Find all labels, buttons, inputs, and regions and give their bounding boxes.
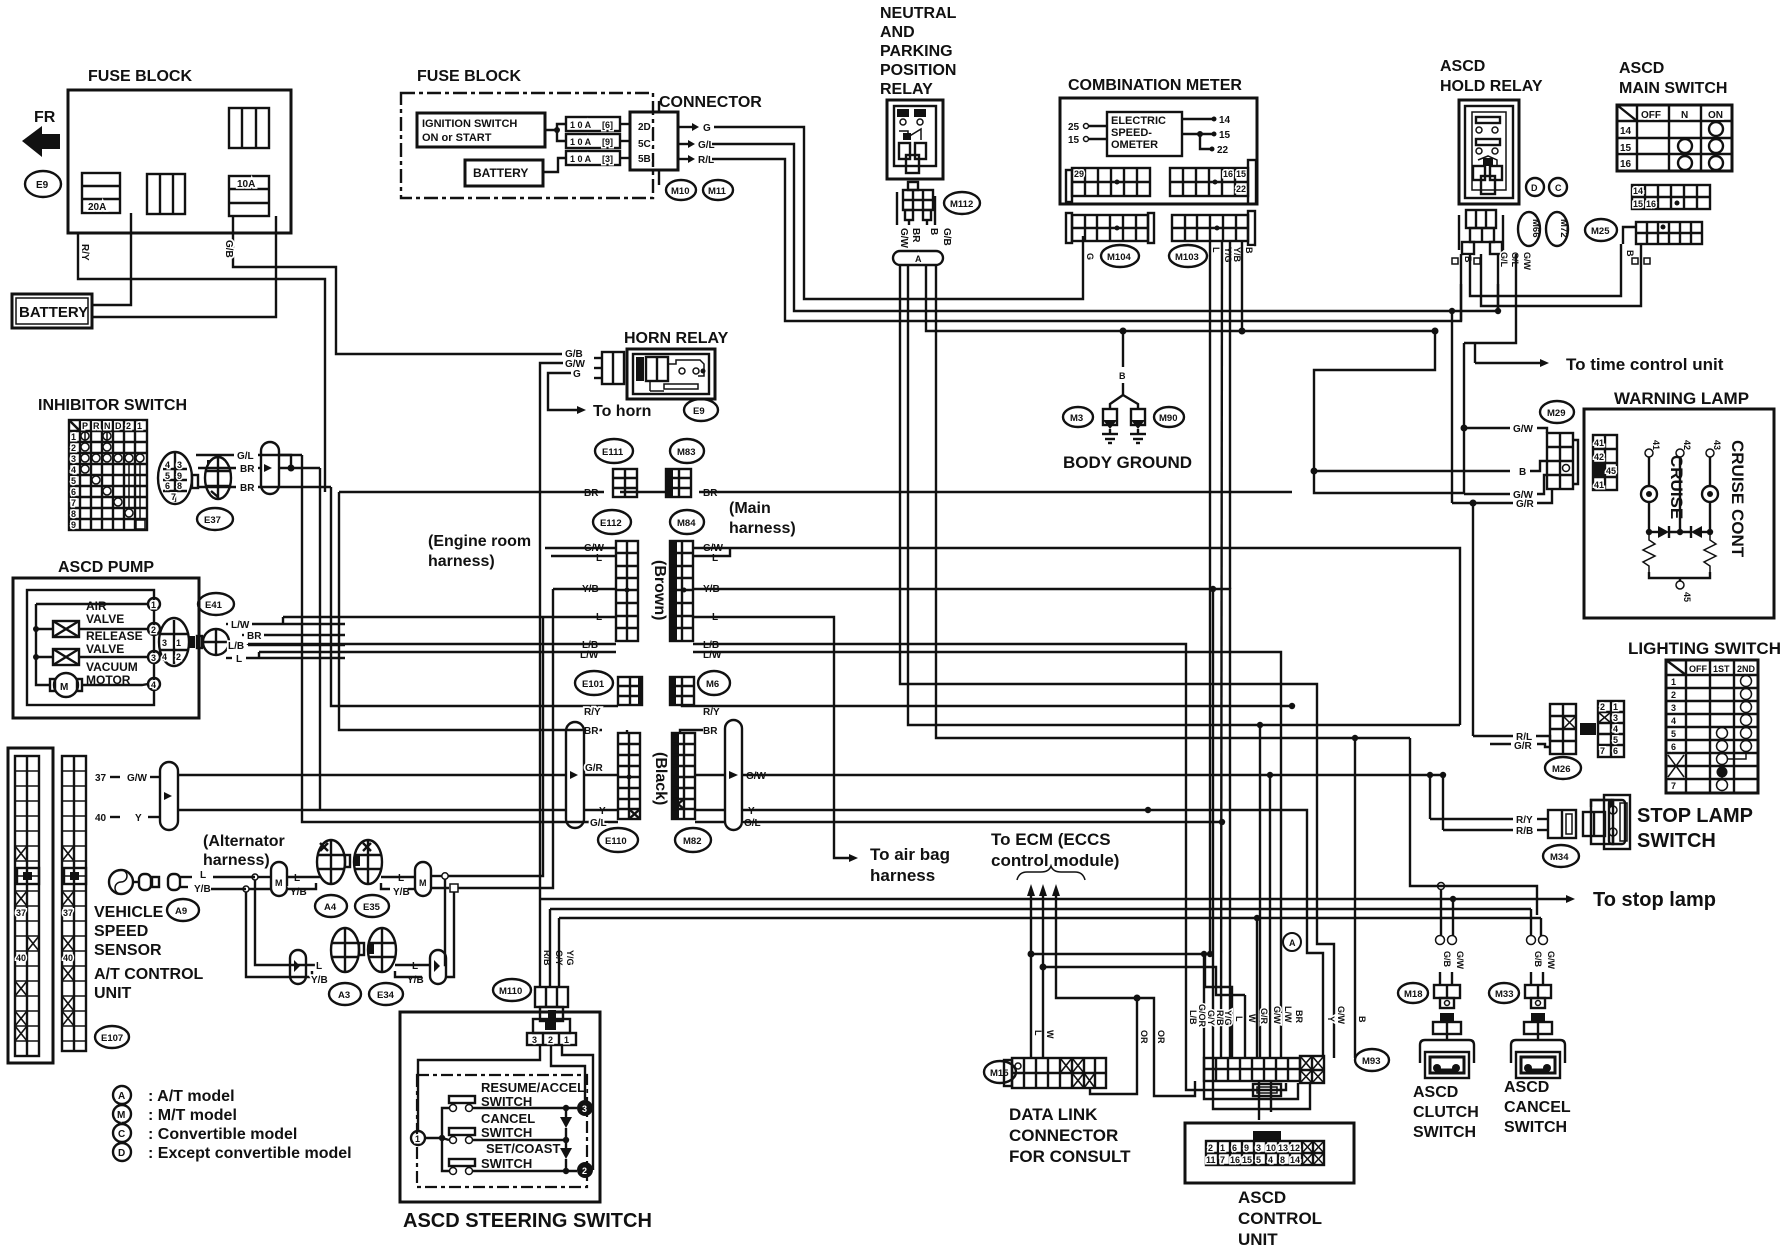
svg-text:45: 45 (1682, 592, 1692, 602)
M110 connector block (535, 987, 568, 1021)
svg-text:15: 15 (1242, 1155, 1252, 1165)
ECM wire W (1039, 884, 1047, 896)
svg-text:M: M (60, 682, 68, 693)
svg-text:A9: A9 (175, 906, 187, 917)
svg-text:20A: 20A (88, 202, 106, 213)
svg-text:E41: E41 (205, 600, 223, 611)
main switch connector B (1623, 222, 1702, 244)
diode row (1646, 529, 1652, 535)
svg-text:42: 42 (1594, 452, 1604, 462)
wire G/B fuse to horn relay (233, 216, 562, 354)
svg-text:W: W (1045, 1030, 1055, 1039)
svg-text:HOLD RELAY: HOLD RELAY (1440, 78, 1543, 95)
svg-text:8: 8 (71, 509, 76, 519)
svg-text:5: 5 (1671, 729, 1676, 739)
ASCD main switch (1617, 60, 1732, 171)
connector E107 (95, 1026, 129, 1048)
svg-text:2: 2 (548, 1035, 553, 1045)
svg-text:M110: M110 (499, 986, 522, 997)
svg-text:(Brown): (Brown) (651, 560, 668, 620)
svg-text:14: 14 (1290, 1155, 1300, 1165)
svg-text:M11: M11 (708, 186, 727, 197)
svg-text:N: N (1681, 110, 1688, 121)
svg-text:41: 41 (1651, 440, 1661, 450)
svg-text:control module): control module) (991, 851, 1119, 870)
internal connector grid (1593, 435, 1617, 490)
A/T pill connector (160, 762, 178, 830)
resistors (1643, 532, 1655, 572)
svg-text:SWITCH: SWITCH (1637, 830, 1716, 852)
wire L/W trunk (259, 651, 616, 653)
svg-text:E112: E112 (600, 518, 622, 529)
svg-text:D: D (118, 1148, 125, 1159)
ASCD control unit box (1185, 1123, 1354, 1183)
svg-text:PARKING: PARKING (880, 43, 953, 60)
M26 right connector with pins (1585, 701, 1624, 757)
wire R/L to hold relay (712, 159, 1461, 321)
svg-text:L/W: L/W (1283, 1006, 1293, 1023)
svg-text:G/W: G/W (1455, 951, 1465, 970)
svg-text:7: 7 (1671, 781, 1676, 791)
svg-text:L: L (412, 961, 418, 972)
svg-text:M82: M82 (683, 836, 701, 847)
svg-text:B: B (1463, 256, 1473, 263)
svg-text:G/L: G/L (590, 818, 607, 829)
svg-text:R/Y: R/Y (79, 244, 90, 261)
svg-text:2: 2 (1671, 690, 1676, 700)
svg-text:G/W: G/W (127, 773, 148, 784)
fuse F3 (middle 3-cell) (147, 174, 185, 214)
M29 connector grid (1547, 433, 1578, 489)
svg-text:3: 3 (1256, 1143, 1261, 1153)
svg-text:CONTROL: CONTROL (1238, 1209, 1322, 1228)
svg-text:7: 7 (71, 498, 76, 508)
svg-text:C: C (1555, 183, 1562, 193)
svg-text:42: 42 (1682, 440, 1692, 450)
svg-text:BR: BR (910, 228, 921, 243)
connector E9 (25, 171, 61, 197)
svg-text:G/R: G/R (1259, 1008, 1269, 1025)
svg-text:Y: Y (748, 806, 755, 817)
M83 grid connector (666, 469, 691, 497)
svg-text:1: 1 (415, 1134, 420, 1144)
svg-text:CONNECTOR: CONNECTOR (1009, 1126, 1118, 1145)
inhibitor round connector 2 (205, 457, 231, 499)
svg-text:M112: M112 (950, 199, 973, 210)
svg-text:A3: A3 (338, 990, 350, 1001)
svg-text:R/Y: R/Y (703, 707, 720, 718)
svg-text:40: 40 (16, 953, 26, 963)
connector M82 (675, 828, 711, 852)
svg-text:UNIT: UNIT (1238, 1230, 1278, 1248)
connector E41 (198, 593, 234, 615)
svg-text:G/L: G/L (237, 451, 254, 462)
connector E111 (595, 439, 633, 463)
svg-text:: Except convertible model: : Except convertible model (148, 1145, 352, 1162)
svg-text:M66: M66 (1530, 219, 1541, 237)
svg-text:CANCEL: CANCEL (481, 1111, 535, 1126)
svg-text:Y/G: Y/G (1223, 247, 1233, 263)
M82 tall connector (672, 733, 695, 819)
svg-text:: A/T model: : A/T model (148, 1088, 235, 1105)
connector M112 oval (944, 192, 980, 214)
svg-text:10: 10 (1266, 1143, 1276, 1153)
battery (12, 294, 92, 328)
svg-text:(Engine room: (Engine room (428, 533, 531, 550)
svg-text:M34: M34 (1550, 852, 1569, 863)
fuse block 2 (dash-dot) (401, 68, 653, 198)
svg-text:1 0 A: 1 0 A (570, 154, 592, 164)
vehicle speed sensor (109, 870, 192, 894)
svg-text:OFF: OFF (1641, 110, 1661, 121)
svg-text:COMBINATION METER: COMBINATION METER (1068, 77, 1242, 94)
long feeder verticals from engine-room trunk (302, 455, 618, 822)
svg-text:15: 15 (1620, 143, 1632, 154)
svg-text:Y/G: Y/G (565, 950, 575, 966)
VSS wires to alternator harness (213, 876, 255, 878)
svg-text:FUSE BLOCK: FUSE BLOCK (88, 68, 192, 85)
svg-text:G/L: G/L (744, 818, 761, 829)
svg-text:4: 4 (1613, 724, 1618, 734)
inhibitor pill connector (261, 442, 279, 494)
svg-text:B: B (1119, 371, 1126, 381)
svg-text:1: 1 (151, 600, 156, 610)
E110 tall connector (618, 733, 640, 819)
svg-text:37: 37 (95, 773, 107, 784)
svg-text:FUSE BLOCK: FUSE BLOCK (417, 68, 521, 85)
svg-text:BR: BR (240, 483, 255, 494)
svg-text:Y/B: Y/B (311, 975, 328, 986)
connector M93 (1355, 1049, 1389, 1071)
horn relay (624, 330, 729, 399)
svg-text:W: W (1247, 1014, 1257, 1023)
svg-text:1: 1 (1671, 677, 1676, 687)
svg-text:Y/B: Y/B (393, 887, 410, 898)
svg-text:G/W: G/W (1522, 252, 1532, 271)
svg-text:E35: E35 (363, 902, 381, 913)
connector E112 (593, 510, 631, 534)
combination meter (1060, 77, 1257, 204)
svg-text:15: 15 (1068, 135, 1080, 146)
svg-text:1: 1 (71, 432, 76, 442)
connector A3 (oval grid) (331, 928, 364, 972)
svg-text:3: 3 (532, 1035, 537, 1045)
node A bus (893, 251, 943, 265)
svg-text:1ST: 1ST (1713, 664, 1730, 674)
svg-text:M25: M25 (1591, 226, 1610, 237)
svg-text:[9]: [9] (602, 137, 613, 147)
M6 grid connector (670, 677, 694, 705)
svg-text:6: 6 (1232, 1143, 1237, 1153)
svg-text:41: 41 (1594, 438, 1604, 448)
svg-text:STOP LAMP: STOP LAMP (1637, 805, 1753, 827)
hold relay wires down (1460, 254, 1462, 321)
svg-text:ON or START: ON or START (422, 132, 492, 144)
svg-text:5B: 5B (638, 154, 651, 165)
svg-text:(Black): (Black) (652, 752, 669, 805)
svg-text:HORN RELAY: HORN RELAY (624, 330, 729, 347)
svg-text:ASCD: ASCD (1238, 1188, 1286, 1207)
svg-text:6: 6 (1613, 746, 1618, 756)
fuse 10A [3] (566, 151, 620, 165)
svg-text:G/W: G/W (1546, 951, 1556, 970)
svg-text:4: 4 (1268, 1155, 1273, 1165)
svg-text:ASCD STEERING SWITCH: ASCD STEERING SWITCH (403, 1210, 652, 1232)
svg-text:10A: 10A (237, 179, 255, 190)
svg-text:SPEED-: SPEED- (1111, 127, 1152, 139)
svg-text:OFF: OFF (1689, 664, 1707, 674)
horn relay connector (594, 352, 624, 384)
svg-text:M84: M84 (677, 518, 696, 529)
svg-text:CANCEL: CANCEL (1504, 1099, 1571, 1116)
svg-text:To horn: To horn (593, 403, 651, 420)
lighting switch (1628, 639, 1780, 793)
svg-text:1 0 A: 1 0 A (570, 120, 592, 130)
svg-text:G/W: G/W (1272, 1006, 1282, 1025)
svg-text:INHIBITOR SWITCH: INHIBITOR SWITCH (38, 397, 187, 414)
pump wires (226, 623, 228, 625)
svg-text:G/B: G/B (941, 228, 952, 246)
wire battery to 10A (92, 216, 276, 317)
svg-text:R/Y: R/Y (1516, 815, 1533, 826)
svg-text:7: 7 (1220, 1155, 1225, 1165)
connector M11 (703, 180, 733, 200)
svg-text:FR: FR (34, 109, 56, 126)
svg-text:R/L: R/L (698, 155, 714, 166)
svg-text:G/L: G/L (698, 140, 715, 151)
svg-text:B: B (1519, 467, 1526, 478)
connector M10 (666, 180, 696, 200)
svg-text:L: L (596, 553, 602, 564)
svg-text:4: 4 (151, 680, 156, 690)
svg-text:3: 3 (1613, 713, 1618, 723)
svg-text:40: 40 (95, 813, 107, 824)
svg-text:LIGHTING SWITCH: LIGHTING SWITCH (1628, 639, 1780, 658)
pill A (lower left) (290, 950, 306, 984)
resume switch symbol (449, 1096, 475, 1103)
svg-text:ASCD PUMP: ASCD PUMP (58, 559, 154, 576)
E111 grid connector (613, 469, 637, 497)
svg-text:13: 13 (1278, 1143, 1288, 1153)
svg-text:M90: M90 (1159, 413, 1177, 424)
svg-text:SWITCH: SWITCH (481, 1094, 532, 1109)
svg-text:G/B: G/B (223, 240, 234, 258)
svg-text:SET/COAST: SET/COAST (486, 1141, 560, 1156)
ECM wire L (1027, 884, 1035, 896)
wire L/B trunk (248, 643, 616, 645)
svg-text:BATTERY: BATTERY (19, 304, 88, 321)
svg-text:4: 4 (1671, 716, 1676, 726)
set/coast switch symbol (449, 1159, 475, 1166)
svg-text:ELECTRIC: ELECTRIC (1111, 115, 1166, 127)
A/T control unit strip 1 (8, 748, 53, 1063)
svg-text:[3]: [3] (602, 154, 613, 164)
ground symbol left (1102, 409, 1118, 443)
svg-text:22: 22 (1217, 145, 1229, 156)
svg-text:harness: harness (870, 866, 935, 885)
connector M84 (670, 510, 704, 534)
svg-text:CRUISE CONT: CRUISE CONT (1728, 440, 1747, 558)
wires from trunk to M29 B/G-W (1314, 331, 1464, 493)
svg-text:3: 3 (177, 460, 182, 470)
svg-text:M29: M29 (1547, 408, 1565, 419)
pill M (upper) (271, 862, 287, 896)
svg-text:To time control unit: To time control unit (1566, 355, 1724, 374)
svg-text:G/R: G/R (585, 763, 604, 774)
svg-text:1: 1 (137, 421, 142, 431)
svg-text:25: 25 (1068, 122, 1080, 133)
svg-text:37: 37 (16, 908, 26, 918)
svg-text:4: 4 (165, 460, 170, 470)
svg-text:G/W: G/W (746, 771, 767, 782)
svg-text:BR: BR (584, 726, 599, 737)
svg-text:M93: M93 (1362, 1056, 1380, 1067)
svg-text:3: 3 (162, 638, 167, 648)
svg-text:E37: E37 (204, 515, 221, 526)
svg-text:M6: M6 (706, 679, 719, 690)
E112 tall connector (616, 541, 638, 641)
svg-text:M33: M33 (1495, 989, 1513, 1000)
svg-text:L: L (712, 553, 718, 564)
svg-text:OR: OR (1156, 1030, 1166, 1044)
svg-text:WARNING LAMP: WARNING LAMP (1614, 389, 1749, 408)
inhibitor oval connector 1 (158, 452, 198, 504)
svg-text:6: 6 (1671, 742, 1676, 752)
svg-text:OR: OR (1139, 1030, 1149, 1044)
wires below A bus (900, 265, 1334, 1058)
svg-text:5C: 5C (638, 139, 651, 150)
cancel switch symbol (449, 1128, 475, 1135)
fuse 20A (82, 173, 120, 213)
svg-text:SWITCH: SWITCH (481, 1156, 532, 1171)
svg-text:M3: M3 (1070, 413, 1083, 424)
svg-text:VACUUM: VACUUM (86, 660, 138, 674)
svg-text:2: 2 (151, 625, 156, 635)
svg-text:L: L (200, 870, 206, 881)
svg-text:E34: E34 (377, 990, 395, 1001)
E101 grid connector (618, 677, 642, 705)
svg-text:BR: BR (240, 464, 255, 475)
svg-text:A/T CONTROL: A/T CONTROL (94, 966, 204, 983)
svg-text:[6]: [6] (602, 120, 613, 130)
svg-text:BR: BR (703, 488, 718, 499)
svg-text:ON: ON (1708, 110, 1723, 121)
inhibitor wires (196, 454, 234, 456)
svg-text:29: 29 (1074, 169, 1084, 179)
svg-text:14: 14 (1620, 126, 1632, 137)
ground symbol right (1130, 409, 1146, 443)
svg-text:9: 9 (177, 471, 182, 481)
svg-text:B: B (1357, 1016, 1367, 1023)
svg-text:L/B: L/B (228, 641, 244, 652)
ECM wire OR (1052, 884, 1060, 896)
svg-text:Y: Y (599, 806, 606, 817)
svg-text:M72: M72 (1558, 219, 1569, 237)
M34 connectors (1548, 810, 1605, 838)
connector M6 (698, 671, 730, 695)
svg-text:RELEASE: RELEASE (86, 629, 143, 643)
connector M110 (493, 979, 531, 1001)
svg-text:1: 1 (1613, 702, 1618, 712)
inhibitor switch (38, 397, 187, 530)
svg-text:SWITCH: SWITCH (481, 1125, 532, 1140)
svg-text:E110: E110 (605, 836, 627, 847)
fuse 10A (229, 176, 269, 216)
fuse 10A [9] (566, 134, 620, 148)
svg-text:M26: M26 (1552, 764, 1570, 775)
diodes (565, 1108, 567, 1117)
svg-text:(Main: (Main (729, 500, 771, 517)
hold relay connector (1459, 210, 1503, 254)
svg-text:L: L (1211, 247, 1221, 253)
svg-text:BR: BR (703, 726, 718, 737)
connector E34 (oval grid) (368, 928, 396, 972)
svg-text:A: A (118, 1091, 125, 1102)
svg-text:DATA LINK: DATA LINK (1009, 1105, 1098, 1124)
svg-text:16: 16 (1230, 1155, 1240, 1165)
svg-text:2: 2 (1208, 1143, 1213, 1153)
connector M83 (670, 439, 704, 463)
connector M29 (1540, 401, 1574, 423)
svg-text:VEHICLE: VEHICLE (94, 904, 164, 921)
svg-text:RELAY: RELAY (880, 81, 933, 98)
stop lamp switch (1591, 795, 1630, 849)
svg-text:9: 9 (71, 520, 76, 530)
pin stubs with labels G, G/L, R/L (678, 126, 692, 128)
D and C circles (1526, 178, 1544, 196)
svg-text:Y/G: Y/G (1223, 1010, 1233, 1026)
svg-text:14: 14 (1219, 115, 1231, 126)
junction body ground B (1120, 328, 1127, 335)
G/W 37 trunk (178, 774, 566, 776)
connector M26 (1550, 704, 1592, 754)
svg-text:E9: E9 (693, 406, 705, 417)
svg-text:Y/B: Y/B (1232, 247, 1242, 263)
svg-text:BR: BR (584, 488, 599, 499)
svg-text:11: 11 (1206, 1155, 1216, 1165)
svg-text:L: L (294, 873, 300, 884)
svg-text:B: B (1244, 247, 1254, 254)
svg-text:5: 5 (1256, 1155, 1261, 1165)
connector E9 (horn) (684, 399, 718, 421)
meter connector strip right (1170, 160, 1256, 204)
svg-text:2D: 2D (638, 122, 651, 133)
wires looping from control unit right side (1354, 738, 1356, 1058)
wire R/Y from fuse block down-left (78, 233, 325, 492)
wire G to combination meter (714, 127, 1083, 299)
svg-text:A: A (1289, 938, 1296, 948)
svg-text:2: 2 (176, 652, 181, 662)
svg-text:AND: AND (880, 24, 915, 41)
connector E37 (197, 508, 233, 530)
svg-text:BR: BR (247, 631, 262, 642)
pill M right (415, 862, 431, 896)
svg-text:SENSOR: SENSOR (94, 942, 162, 959)
svg-text:E9: E9 (36, 180, 49, 191)
svg-text:B: B (928, 228, 939, 235)
svg-text:To air bag: To air bag (870, 845, 950, 864)
connector M104 oval (1101, 245, 1139, 267)
pin 1 (411, 1131, 425, 1145)
svg-text:41: 41 (1594, 480, 1604, 490)
svg-text:E111: E111 (602, 447, 624, 458)
svg-text:ASCD: ASCD (1619, 60, 1664, 77)
svg-text:G/OR: G/OR (1197, 1004, 1207, 1028)
connector M15 (984, 1061, 1016, 1083)
svg-text:G/R: G/R (1514, 741, 1533, 752)
svg-text:D: D (115, 421, 122, 431)
svg-text:G/Y: G/Y (1206, 1010, 1216, 1026)
